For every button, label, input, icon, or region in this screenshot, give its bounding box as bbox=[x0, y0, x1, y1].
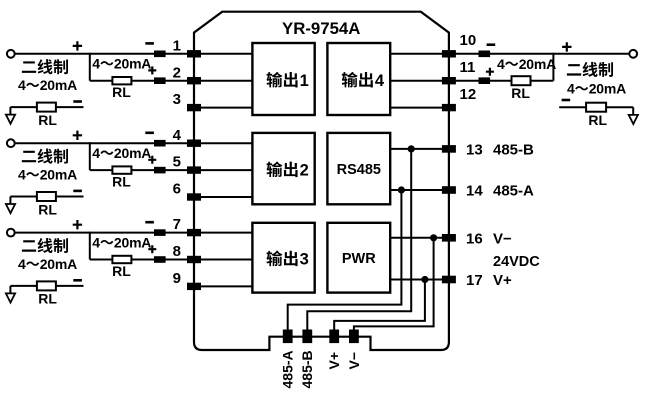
svg-text:485-B: 485-B bbox=[493, 142, 534, 159]
resistor RL loop channel 2 bbox=[112, 166, 131, 173]
terminal pin 11 on device edge bbox=[442, 77, 456, 84]
terminal pin 9 on device edge bbox=[187, 283, 201, 290]
wire net V- from bottom terminal to junction bbox=[354, 238, 434, 331]
svg-text:RL: RL bbox=[112, 174, 131, 190]
svg-text:4: 4 bbox=[497, 56, 505, 72]
polarity - label at pin 1 bbox=[145, 42, 154, 45]
wire loop bottom to pin 2 bbox=[90, 80, 253, 82]
terminal pin 3 on device edge bbox=[187, 104, 201, 111]
terminal pin 12 on device edge bbox=[442, 104, 456, 111]
terminal pin 7 on device edge bbox=[187, 229, 201, 236]
function block U3 output3 bbox=[252, 223, 314, 293]
wire ground row channel 3 bbox=[10, 285, 83, 287]
terminal pin 4 on device edge bbox=[187, 140, 201, 147]
polarity - label at pin 7 bbox=[145, 221, 154, 224]
resistor RL output loop bbox=[512, 76, 531, 85]
svg-text:4: 4 bbox=[92, 56, 100, 72]
terminal pin 16 on device edge bbox=[442, 234, 456, 242]
resistor RL ground row output bbox=[586, 103, 606, 112]
svg-text:6: 6 bbox=[173, 181, 181, 198]
svg-text:V−: V− bbox=[346, 352, 362, 370]
polarity - label at pin 4 bbox=[145, 132, 154, 135]
svg-text:20mA: 20mA bbox=[519, 56, 556, 72]
resistor RL loop channel 1 bbox=[112, 77, 131, 84]
svg-text:4: 4 bbox=[173, 127, 182, 144]
terminal block outside pin 10 bbox=[479, 51, 491, 58]
terminal bottom 485-A bbox=[283, 330, 293, 344]
node terminal circle output + bbox=[629, 50, 637, 58]
polarity + label channel 1 input bbox=[73, 41, 82, 50]
ground output channel bbox=[632, 107, 634, 114]
label two-wire transmitter channel 2 bbox=[22, 149, 68, 164]
wire ground row channel 1 bbox=[10, 106, 83, 108]
net label 485-A rotated bbox=[280, 350, 296, 388]
terminal block outside pin 5 bbox=[154, 167, 166, 174]
svg-text:4: 4 bbox=[375, 72, 385, 90]
svg-text:485-A: 485-A bbox=[493, 183, 534, 200]
svg-text:4: 4 bbox=[567, 81, 575, 97]
wire + lead from circle to pin 7 bbox=[15, 232, 252, 234]
svg-text:13: 13 bbox=[466, 142, 483, 159]
terminal block outside pin 11 bbox=[479, 77, 491, 84]
polarity - label ground row channel 2 bbox=[73, 190, 82, 193]
svg-text:1: 1 bbox=[300, 72, 309, 90]
terminal pin 10 on device edge bbox=[442, 50, 456, 57]
svg-text:20mA: 20mA bbox=[114, 56, 151, 72]
terminal bottom 485-B bbox=[302, 330, 312, 344]
terminal bottom V+ bbox=[329, 330, 339, 344]
polarity + label output circle bbox=[562, 42, 571, 51]
svg-text:4: 4 bbox=[18, 77, 26, 93]
ground channel 3 bbox=[9, 286, 11, 293]
svg-text:20mA: 20mA bbox=[114, 234, 151, 250]
wire ground row channel 2 bbox=[10, 196, 83, 198]
svg-text:12: 12 bbox=[460, 86, 477, 103]
svg-text:3: 3 bbox=[173, 91, 181, 108]
node terminal circle channel 2 + input bbox=[7, 139, 15, 147]
wire pin 14 bbox=[390, 189, 449, 191]
junction 485-A bbox=[398, 186, 405, 193]
terminal pin 14 on device edge bbox=[442, 186, 456, 194]
wire pin 12 stub bbox=[390, 107, 449, 109]
svg-text:20mA: 20mA bbox=[40, 256, 77, 272]
device body YR-9754A outline bbox=[194, 12, 449, 350]
svg-text:5: 5 bbox=[173, 154, 181, 171]
wire loop left side channel 2 bbox=[89, 142, 91, 170]
wire pin 13 bbox=[390, 148, 449, 150]
net label V+ rotated bbox=[326, 352, 342, 370]
svg-text:3: 3 bbox=[300, 251, 309, 269]
resistor RL ground row channel 1 bbox=[37, 103, 56, 112]
svg-text:20mA: 20mA bbox=[589, 81, 626, 97]
wire net 485-B from bottom terminal to junction bbox=[307, 149, 411, 331]
label two-wire transmitter output bbox=[567, 62, 613, 77]
svg-text:485-A: 485-A bbox=[280, 350, 296, 388]
polarity - label ground row channel 3 bbox=[73, 279, 82, 282]
svg-text:RL: RL bbox=[112, 84, 131, 100]
svg-text:1: 1 bbox=[173, 37, 181, 54]
svg-text:10: 10 bbox=[460, 32, 477, 49]
terminal block outside pin 2 bbox=[154, 77, 166, 84]
function block U6 PWR bbox=[327, 223, 390, 293]
ground channel 1 bbox=[9, 107, 11, 114]
wire + lead from circle to pin 4 bbox=[15, 142, 252, 144]
ground channel 2 bbox=[9, 197, 11, 204]
wire loop bottom pin 11 bbox=[390, 80, 553, 82]
svg-text:20mA: 20mA bbox=[114, 145, 151, 161]
svg-text:20mA: 20mA bbox=[40, 167, 77, 183]
polarity + label channel 2 input bbox=[73, 131, 82, 140]
junction V- bbox=[430, 234, 437, 241]
svg-text:14: 14 bbox=[466, 183, 483, 200]
wire loop left side channel 1 bbox=[89, 53, 91, 81]
svg-text:RL: RL bbox=[588, 112, 607, 128]
svg-text:RL: RL bbox=[38, 291, 57, 307]
svg-text:YR-9754A: YR-9754A bbox=[282, 19, 360, 38]
wire pin 10 from output4 to circle bbox=[390, 53, 629, 55]
terminal block outside pin 8 bbox=[154, 256, 166, 263]
svg-text:11: 11 bbox=[460, 59, 476, 76]
wire + lead from circle to pin 1 bbox=[15, 53, 252, 55]
wire loop bottom to pin 5 bbox=[90, 169, 253, 171]
resistor RL loop channel 3 bbox=[112, 256, 131, 263]
svg-text:4: 4 bbox=[18, 167, 26, 183]
svg-text:RL: RL bbox=[38, 201, 57, 217]
polarity + label channel 3 input bbox=[73, 220, 82, 229]
resistor RL ground row channel 2 bbox=[37, 192, 56, 201]
wire loop right side output channel bbox=[552, 53, 554, 81]
terminal block outside pin 4 bbox=[154, 140, 166, 147]
wire pin 6 to output box bbox=[194, 196, 252, 198]
terminal pin 6 on device edge bbox=[187, 193, 201, 200]
wire pin 3 to output box bbox=[194, 107, 252, 109]
polarity - label at pin 10 bbox=[487, 43, 496, 46]
svg-text:485-B: 485-B bbox=[299, 350, 315, 388]
terminal pin 8 on device edge bbox=[187, 256, 201, 263]
polarity - label ground row channel 1 bbox=[73, 100, 82, 103]
function block U1 output1 bbox=[252, 43, 314, 115]
svg-text:RS485: RS485 bbox=[337, 162, 381, 178]
node terminal circle channel 1 + input bbox=[7, 50, 15, 58]
terminal pin 13 on device edge bbox=[442, 145, 456, 153]
terminal pin 2 on device edge bbox=[187, 77, 201, 84]
polarity + label at pin 8 bbox=[148, 245, 156, 253]
svg-text:V−: V− bbox=[493, 230, 512, 247]
svg-text:4: 4 bbox=[18, 256, 26, 272]
svg-text:20mA: 20mA bbox=[40, 77, 77, 93]
svg-text:V+: V+ bbox=[326, 352, 342, 370]
label two-wire transmitter channel 3 bbox=[22, 238, 68, 253]
terminal bottom V&#8722; bbox=[349, 330, 359, 344]
terminal block outside pin 1 bbox=[154, 51, 166, 58]
svg-text:9: 9 bbox=[173, 270, 181, 287]
wire pin 16 bbox=[390, 237, 449, 239]
wire loop bottom to pin 8 bbox=[90, 259, 253, 261]
terminal pin 5 on device edge bbox=[187, 166, 201, 173]
svg-text:RL: RL bbox=[511, 85, 530, 101]
net label 485-B rotated bbox=[299, 350, 315, 388]
label two-wire transmitter channel 1 bbox=[22, 59, 68, 74]
svg-text:7: 7 bbox=[173, 216, 181, 233]
svg-text:2: 2 bbox=[173, 64, 181, 81]
svg-text:RL: RL bbox=[38, 112, 57, 128]
svg-text:17: 17 bbox=[466, 272, 483, 289]
function block U5 RS485 bbox=[327, 133, 390, 204]
wire net 485-A from bottom terminal to junction bbox=[288, 190, 402, 331]
polarity + label at pin 5 bbox=[148, 156, 156, 164]
wire pin 9 to output box bbox=[194, 285, 252, 287]
node terminal circle channel 3 + input bbox=[7, 229, 15, 237]
svg-text:16: 16 bbox=[466, 230, 483, 247]
wire loop left side channel 3 bbox=[89, 232, 91, 260]
wire ground row output bbox=[559, 106, 633, 108]
function block U4 output4 bbox=[327, 43, 390, 115]
polarity + label at pin 11 bbox=[486, 68, 494, 76]
terminal pin 17 on device edge bbox=[442, 276, 456, 284]
junction 485-B bbox=[408, 145, 415, 152]
resistor RL ground row channel 3 bbox=[37, 281, 56, 290]
terminal block outside pin 7 bbox=[154, 229, 166, 236]
svg-text:24VDC: 24VDC bbox=[493, 254, 540, 270]
svg-text:4: 4 bbox=[92, 234, 100, 250]
svg-text:8: 8 bbox=[173, 243, 181, 260]
svg-text:4: 4 bbox=[92, 145, 100, 161]
junction V+ bbox=[421, 276, 428, 283]
function block U2 output2 bbox=[252, 133, 314, 204]
wire pin 17 bbox=[390, 279, 449, 281]
polarity + label at pin 2 bbox=[148, 66, 156, 74]
wire net V+ from bottom terminal to junction bbox=[334, 280, 425, 332]
svg-text:PWR: PWR bbox=[342, 251, 376, 267]
svg-text:RL: RL bbox=[112, 263, 131, 279]
terminal pin 1 on device edge bbox=[187, 50, 201, 57]
svg-text:V+: V+ bbox=[493, 272, 512, 289]
polarity - label ground row output bbox=[562, 99, 571, 102]
svg-text:2: 2 bbox=[300, 162, 309, 180]
net label V&#8722; rotated bbox=[346, 352, 362, 370]
